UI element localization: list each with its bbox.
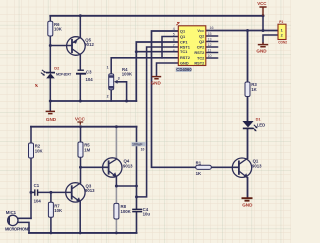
svg-text:GND: GND: [46, 117, 57, 122]
svg-text:10K: 10K: [35, 148, 44, 153]
svg-text:9012: 9012: [84, 42, 94, 47]
svg-text:P1: P1: [279, 20, 283, 24]
svg-text:CD4060: CD4060: [176, 67, 192, 72]
svg-text:CP2: CP2: [197, 44, 205, 49]
svg-text:5: 5: [173, 33, 175, 37]
svg-text:GND: GND: [151, 81, 162, 86]
svg-text:9013: 9013: [85, 188, 95, 193]
svg-text:2: 2: [107, 94, 109, 98]
svg-text:10: 10: [208, 54, 212, 58]
svg-text:11: 11: [208, 48, 212, 52]
svg-text:10u: 10u: [143, 211, 151, 216]
svg-text:104: 104: [34, 199, 42, 204]
svg-text:9013: 9013: [123, 164, 133, 169]
svg-text:CON2: CON2: [278, 40, 287, 44]
svg-text:1K: 1K: [251, 87, 257, 92]
svg-text:GND: GND: [242, 203, 253, 208]
svg-text:RST2: RST2: [194, 50, 205, 55]
svg-text:10K: 10K: [54, 27, 63, 32]
svg-text:13: 13: [208, 37, 212, 41]
svg-text:GND: GND: [180, 60, 189, 65]
svg-text:VCC: VCC: [197, 28, 205, 33]
svg-text:4: 4: [173, 27, 175, 31]
svg-text:10K: 10K: [54, 208, 63, 213]
svg-text:R1: R1: [196, 161, 202, 166]
svg-text:MIC1: MIC1: [6, 210, 17, 215]
svg-text:1M: 1M: [84, 147, 90, 152]
svg-text:RST2: RST2: [194, 60, 205, 65]
svg-text:1K: 1K: [196, 171, 202, 176]
svg-text:LED: LED: [257, 122, 266, 127]
svg-text:GND: GND: [256, 48, 267, 53]
svg-text:16: 16: [210, 26, 214, 30]
svg-text:1: 1: [281, 28, 283, 32]
svg-text:3: 3: [118, 76, 120, 80]
svg-text:C3: C3: [86, 70, 92, 75]
svg-text:Q2: Q2: [199, 33, 205, 38]
svg-text:Q1: Q1: [180, 28, 186, 33]
svg-text:MICROPHONE: MICROPHONE: [5, 227, 30, 232]
svg-text:TC1: TC1: [180, 49, 188, 54]
svg-text:Q1: Q1: [180, 34, 186, 39]
svg-text:9013: 9013: [252, 164, 262, 169]
svg-text:D2: D2: [54, 66, 60, 71]
svg-text:C1: C1: [34, 183, 40, 188]
svg-text:8: 8: [173, 49, 175, 53]
svg-text:104: 104: [86, 77, 94, 82]
svg-text:100K: 100K: [121, 209, 132, 214]
svg-text:D1: D1: [256, 116, 262, 121]
svg-text:12: 12: [208, 43, 212, 47]
svg-text:100K: 100K: [122, 72, 133, 77]
svg-text:100uF: 100uF: [132, 143, 143, 147]
svg-text:1: 1: [107, 65, 109, 69]
svg-text:10: 10: [141, 147, 145, 151]
svg-text:6: 6: [173, 38, 175, 42]
svg-text:2: 2: [281, 33, 283, 37]
svg-text:Q2: Q2: [199, 39, 205, 44]
svg-text:VCC: VCC: [257, 1, 267, 6]
svg-text:MCP-3DXT: MCP-3DXT: [56, 72, 72, 76]
svg-text:7: 7: [173, 44, 175, 48]
svg-text:15: 15: [208, 32, 212, 36]
